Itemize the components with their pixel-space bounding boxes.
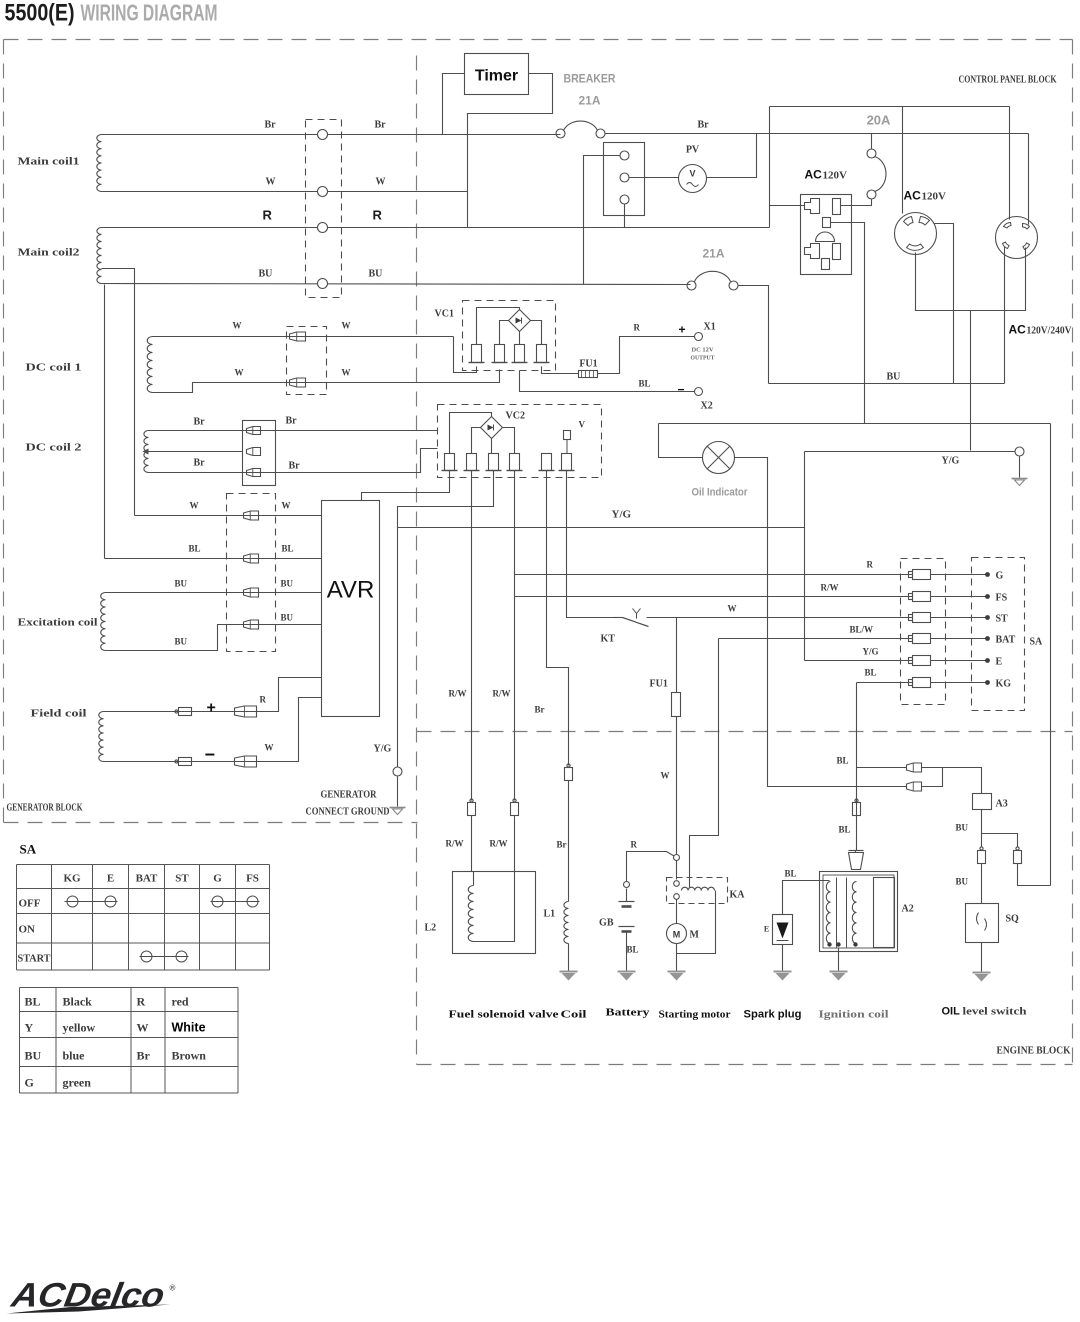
svg-text:KG: KG [996,679,1012,690]
svg-text:21A: 21A [702,247,724,261]
wire CN2 top pin to 21A feed [584,156,620,285]
wire G row [515,574,913,576]
wire right bullet to panel ground drop [1018,864,1051,886]
table legend grid [20,987,239,989]
svg-text:®: ® [170,1284,176,1293]
svg-text:VC1: VC1 [435,309,454,320]
receptacle duplex pin bottom-right slot [833,244,841,260]
wire panel ground run [659,423,1051,425]
svg-text:V: V [579,420,586,430]
wire Br breaker to right [605,133,1029,135]
svg-text:W: W [342,321,351,331]
outlet twist-lock slot NW [904,217,914,226]
rectifier VC1 pin3 [515,345,525,363]
wire left bullet to SQ [981,864,983,904]
svg-text:Y/G: Y/G [942,456,960,467]
wire BAT riser to KA relay [690,639,719,889]
ground L1 [560,971,578,973]
wire timer left lead [443,74,465,135]
connector spade W row [244,511,259,520]
wire to A3 [922,768,982,794]
svg-text:W: W [376,177,386,188]
spark plug E box [773,915,793,945]
svg-text:Br: Br [557,840,567,850]
wire W dc-coil1 top [153,336,454,338]
ignition coil A2 box [820,872,898,952]
svg-text:Oil Indicator: Oil Indicator [692,487,749,499]
svg-text:R: R [373,208,383,223]
svg-text:V: V [689,169,695,179]
wire spade lower link up [922,768,943,787]
node FS [985,594,990,599]
svg-text:20A: 20A [867,113,891,128]
svg-text:−: − [205,745,216,765]
breaker 20A arc [875,157,886,192]
wire VC1 pin4 to fuse [542,367,579,374]
relay KA contact bottom [674,894,680,900]
connector spade BAT [909,636,913,642]
svg-text:Br: Br [289,461,301,472]
svg-text:ON: ON [19,924,36,936]
svg-text:E: E [107,873,114,885]
control panel block dashed border (right) [1072,40,1074,1065]
wire VC2 pin6 to KT [567,471,614,618]
svg-text:AC: AC [805,168,823,182]
node BAT [985,636,990,641]
svg-text:CONTROL PANEL BLOCK: CONTROL PANEL BLOCK [959,75,1057,86]
connector CN2 pin bottom [620,195,629,204]
battery GB [624,882,630,888]
wire hot bus drop to twist outlet [902,107,904,214]
svg-text:W: W [266,177,276,188]
svg-text:OUTPUT: OUTPUT [691,356,715,362]
svg-text:BU: BU [25,1049,42,1063]
logo swoosh [7,1305,171,1314]
svg-text:G: G [213,873,222,885]
relay KA contact top [674,881,680,887]
rectifier VC2 internal wiring [450,413,492,454]
svg-text:SQ: SQ [1006,914,1020,925]
wire 20A top to Br bus [871,134,873,150]
svg-text:W: W [342,368,351,378]
wire R/W riser 1 lower [471,816,473,872]
generator block dashed border (left) [3,40,5,823]
connector spade field - [235,756,257,767]
generator block dashed border (top) [4,39,1073,41]
ground ignition coil [830,971,848,973]
svg-text:Ignition coil: Ignition coil [819,1009,889,1021]
block separator dashed vertical [416,56,418,1065]
svg-text:Br: Br [194,458,206,469]
breaker 21A contacts [556,129,565,138]
wire KG riser down to ignition [856,683,858,851]
svg-text:yellow: yellow [63,1021,96,1035]
svg-text:BL: BL [639,379,651,389]
svg-text:R: R [867,560,874,570]
svg-text:KA: KA [730,890,746,901]
svg-text:E: E [996,657,1003,668]
svg-text:Excitation coil: Excitation coil [18,617,98,629]
svg-text:FU1: FU1 [650,679,668,690]
switch SA dashed box [972,558,1025,711]
node ST [985,615,990,620]
dc coil 1 L [147,337,152,393]
svg-text:CONNECT GROUND: CONNECT GROUND [306,807,390,818]
module A3 box [973,794,992,810]
rectifier VC2 pin2 [467,454,477,471]
svg-text:Brown: Brown [172,1049,207,1063]
wire field - to AVR [104,698,322,762]
connector spade BU row 2 [244,620,259,629]
svg-text:L1: L1 [544,909,556,920]
svg-text:R: R [260,695,267,705]
svg-text:AVR: AVR [327,577,375,604]
svg-text:Black: Black [63,995,93,1009]
wire Y/G to E-row riser [804,452,806,661]
wire W main coil1 bottom [102,191,468,193]
svg-text:AC: AC [904,189,922,203]
connector spade on W bottom [290,378,306,387]
svg-text:OIL: OIL [942,1006,961,1018]
connector bullet field - [175,760,178,763]
engine block dashed border (top) [417,731,1073,733]
svg-text:DC coil 1: DC coil 1 [26,362,82,374]
connector mark on pin6 [564,431,571,440]
svg-text:120V: 120V [823,170,848,182]
svg-text:BU: BU [369,269,383,280]
svg-text:level switch: level switch [963,1006,1027,1018]
svg-text:+: + [207,700,216,717]
connector spade ST [909,615,913,621]
svg-text:Timer: Timer [475,68,518,85]
svg-text:blue: blue [63,1049,86,1063]
table SA grid [17,864,270,866]
timer U-timer box [465,54,529,95]
svg-text:+: + [679,323,686,337]
svg-text:DC coil 2: DC coil 2 [26,442,83,454]
wire R/W riser 2 (VC2 pin4 to engine) [514,471,516,801]
wire SQ to ground [981,943,983,973]
wire Y/G generator ground riser [397,528,399,768]
svg-text:BL: BL [627,945,639,955]
wire BU main coil2 bottom [102,284,691,285]
field coil L [99,712,104,762]
wire Y/G gnd stub [805,451,1016,453]
connector CN1 pin circle Br [318,130,328,140]
rectifier VC1 pin4 [537,345,547,363]
wire oil indicator left to panel ground run [659,424,703,458]
wire R main coil2 top [102,227,770,229]
outlet 240V slot NE [1023,223,1030,229]
wire spark plug ground [782,945,784,972]
svg-text:BL: BL [839,825,851,835]
svg-text:21A: 21A [578,94,600,108]
svg-text:Spark plug: Spark plug [744,1009,802,1021]
connector spade BL row [244,554,259,563]
connector spade mid [247,448,261,456]
svg-text:BU: BU [887,372,901,383]
svg-text:VC2: VC2 [506,411,525,422]
svg-text:BL: BL [282,544,294,554]
regulator AVR box [322,501,380,717]
svg-text:BL: BL [785,869,797,879]
wire R riser to hot bus [769,107,771,228]
svg-text:120V/240V: 120V/240V [1027,326,1073,337]
rectifier VC2 dashed box [438,405,602,478]
rectifier VC2 pin1 [445,454,455,471]
wire KT to SA ST row [647,617,913,619]
breaker 21A lower arc [695,271,731,281]
svg-text:KG: KG [63,873,81,885]
wire BL row to AVR [105,558,322,560]
svg-text:BL/W: BL/W [850,625,874,635]
wires SA spades to pins [931,574,986,576]
rectifier VC2 pin3 [489,454,499,471]
receptacle duplex pin bottom-left T [805,244,820,259]
ground panel Y/G ground [1012,478,1028,480]
rectifier VC2 pin4 [510,454,520,471]
wire KG riser into ignition spade [855,851,857,853]
ground spark plug [774,971,792,973]
wire R/W riser 2 lower [514,816,516,872]
svg-text:−: − [678,383,685,397]
svg-text:G: G [25,1076,34,1090]
wire panel ground stem [1019,457,1021,478]
connector bullet on ignition riser [855,799,858,802]
ignition coil A2 bottom nodes [827,942,831,946]
wire 20A bottom to duplex outlet [841,199,872,206]
rectifier VC1 internal wiring [477,308,520,345]
svg-text:KT: KT [601,634,616,645]
svg-text:SA: SA [1030,637,1044,648]
terminal X1 [695,333,703,341]
wire FS row [515,596,913,598]
svg-text:Main coil2: Main coil2 [18,247,81,259]
connector dc-coil1 dashed box [287,327,327,395]
connector spade Br bottom [247,469,261,477]
ground generator connect ground [390,807,406,809]
connector bullet SQ left [980,847,983,850]
wire Br to L1 [568,781,570,902]
svg-text:green: green [63,1076,92,1090]
wire KG row [857,682,913,684]
svg-text:Br: Br [194,417,206,428]
svg-text:ST: ST [996,614,1009,625]
connector spade on W top [290,332,306,341]
rectifier VC1 dashed box [463,301,556,371]
receptacle duplex AC120V body [801,195,852,275]
svg-text:A3: A3 [996,799,1008,810]
svg-text:red: red [172,995,189,1009]
wire hot bus drop to 240V outlet NW [1009,107,1011,220]
excitation coil L [101,593,106,651]
rectifier VC1 diamond [509,310,531,332]
svg-text:Y/G: Y/G [612,509,632,521]
wire L1 to ground [568,944,570,972]
svg-text:OFF: OFF [19,898,41,910]
svg-text:W: W [728,604,737,614]
thermal switch KT [614,617,623,619]
svg-text:M: M [690,930,700,941]
connector CN1 pin circle W [318,187,328,197]
connector CN2 pin top [620,151,629,160]
svg-text:W: W [661,771,670,781]
receptacle duplex dome [816,232,835,242]
relay KA dashed box [667,878,728,904]
svg-text:X2: X2 [701,401,713,412]
receptacle duplex ground square top [823,218,831,228]
svg-text:G: G [996,571,1004,582]
svg-text:BU: BU [259,269,273,280]
wire A3 branch right [982,834,1018,847]
fuse FU1 starter vertical [676,618,678,693]
wire R/W riser 1 (VC2 pin2 to engine) [471,471,473,801]
connector bullet field + [175,710,178,713]
wire field + to AVR [104,678,322,712]
svg-text:Main coil1: Main coil1 [18,156,80,168]
wire hot bus top [770,106,1010,108]
wire main coil2 tap down to W row [102,269,135,516]
svg-text:BAT: BAT [136,873,158,885]
wire duplex ground to panel ground [831,223,865,424]
motor M starting [667,924,687,944]
rectifier VC1 pin2 [495,345,505,363]
wire 21A lower output to BU bus drop [738,286,769,384]
terminal ring generator ground [393,767,402,776]
wire twist-lock bottom slot loop [916,248,1026,311]
svg-text:GENERATOR BLOCK: GENERATOR BLOCK [7,803,83,814]
rectifier VC1 pin1 [472,345,482,363]
svg-text:Starting motor: Starting motor [659,1009,731,1021]
svg-text:Y/G: Y/G [863,647,879,657]
table SA START link BAT-ST [140,956,189,958]
svg-text:R: R [137,995,146,1009]
svg-text:L2: L2 [425,923,437,934]
svg-text:Fuel solenoid valve: Fuel solenoid valve [449,1009,559,1021]
connector spade ignition top [849,853,864,870]
connector bullet SQ right [1016,847,1019,850]
terminal X2 [695,388,703,396]
wire Br drop to 240V outlet NE [1028,134,1030,225]
svg-text:BAT: BAT [996,635,1016,646]
wire spark plug to ignition coil [783,881,830,915]
svg-text:Y: Y [25,1021,34,1035]
svg-text:W: W [233,321,242,331]
svg-text:R: R [263,208,273,223]
svg-text:Br: Br [375,120,387,131]
wire oil indicator right to ignition BL net [735,458,907,787]
breaker 21A arc [564,121,598,130]
wire motor to ground [676,954,678,972]
wire to generator ground [397,777,399,807]
wire Br main coil1 top [102,134,561,136]
svg-text:A2: A2 [902,904,914,915]
connector CN1 pin circle BU [318,279,328,289]
node KG [985,680,990,685]
connector bullet R/W 1 [470,799,473,802]
svg-text:R/W: R/W [446,839,464,849]
svg-text:START: START [18,953,52,965]
wire timer right lead [468,74,553,228]
wire Br riser (VC2 pin5 to coil L1) [547,471,569,766]
svg-text:BREAKER: BREAKER [564,72,616,86]
svg-text:DC 12V: DC 12V [692,348,715,354]
svg-text:FS: FS [246,873,259,885]
wire dc-coil2 mid [149,451,243,453]
svg-text:White: White [172,1021,206,1035]
voltmeter PV [679,165,707,193]
receptacle duplex pin top-left T [805,199,820,214]
breaker 20A contacts [867,149,876,158]
connector bullet Br [567,764,570,767]
svg-text:R/W: R/W [490,839,508,849]
ground battery [618,971,636,973]
node G [985,572,990,577]
wire CN2 bottom pin to R bus [624,204,626,228]
fuel solenoid valve coil [468,886,473,942]
outlet twist-lock AC120V/240V body [996,217,1038,259]
svg-text:BL: BL [865,668,877,678]
logo ACDelco [8,1277,168,1315]
svg-text:BU: BU [956,877,969,887]
wire fuse to X1 [598,337,695,374]
wire duplex left pin feed [770,205,805,207]
svg-text:W: W [282,501,291,511]
connector spade BL lower [907,782,922,791]
connector CN1 dashed box [306,120,342,298]
svg-text:FS: FS [996,593,1008,604]
wire Br dc-coil2 top [149,430,438,432]
svg-text:AC: AC [1009,323,1027,337]
wire VC2 pin1 wrap to AVR top [362,471,450,501]
svg-text:Y/G: Y/G [374,744,392,755]
wire FU1 to starter relay [676,717,678,880]
connector spade BU row [244,588,259,597]
rectifier VC2 diamond [481,417,503,439]
wire VC2 pin3 wrap to ground riser [398,471,494,528]
ignition coil A2 secondary winding [852,882,856,944]
svg-text:BU: BU [281,613,294,623]
generator block dashed border (bottom) [4,822,418,824]
main coil1 L [97,135,102,192]
svg-text:Br: Br [535,705,545,715]
connector excitation dashed box [227,494,276,652]
svg-text:PV: PV [686,145,700,156]
wire W dc-coil1 top drop to VC1 pin1 [454,337,477,373]
svg-text:Br: Br [137,1049,151,1063]
table SA OFF link G-FS [211,901,260,903]
svg-text:M: M [673,930,681,940]
connector spade field + [235,706,257,717]
svg-text:BU: BU [281,579,294,589]
svg-text:Br: Br [286,416,298,427]
wire VC1 pin3 to X2 (BL) [520,371,695,392]
connector spade G [909,572,913,578]
wire BU row to AVR [106,592,322,594]
ignition coil A2 inner box [874,878,895,948]
connector SA plug dashed box [901,559,946,705]
rectifier VC2 pin5 [542,454,552,471]
connector spade KG [909,680,913,686]
wire BL branch to A3 [857,767,907,769]
svg-text:R: R [631,840,638,850]
relay KA coil [682,887,715,890]
svg-text:R: R [634,323,641,333]
wire Y/G horizontal run [398,527,805,529]
receptacle duplex pin top-right slot [833,199,841,215]
svg-text:BU: BU [956,823,969,833]
svg-text:W: W [265,743,274,753]
